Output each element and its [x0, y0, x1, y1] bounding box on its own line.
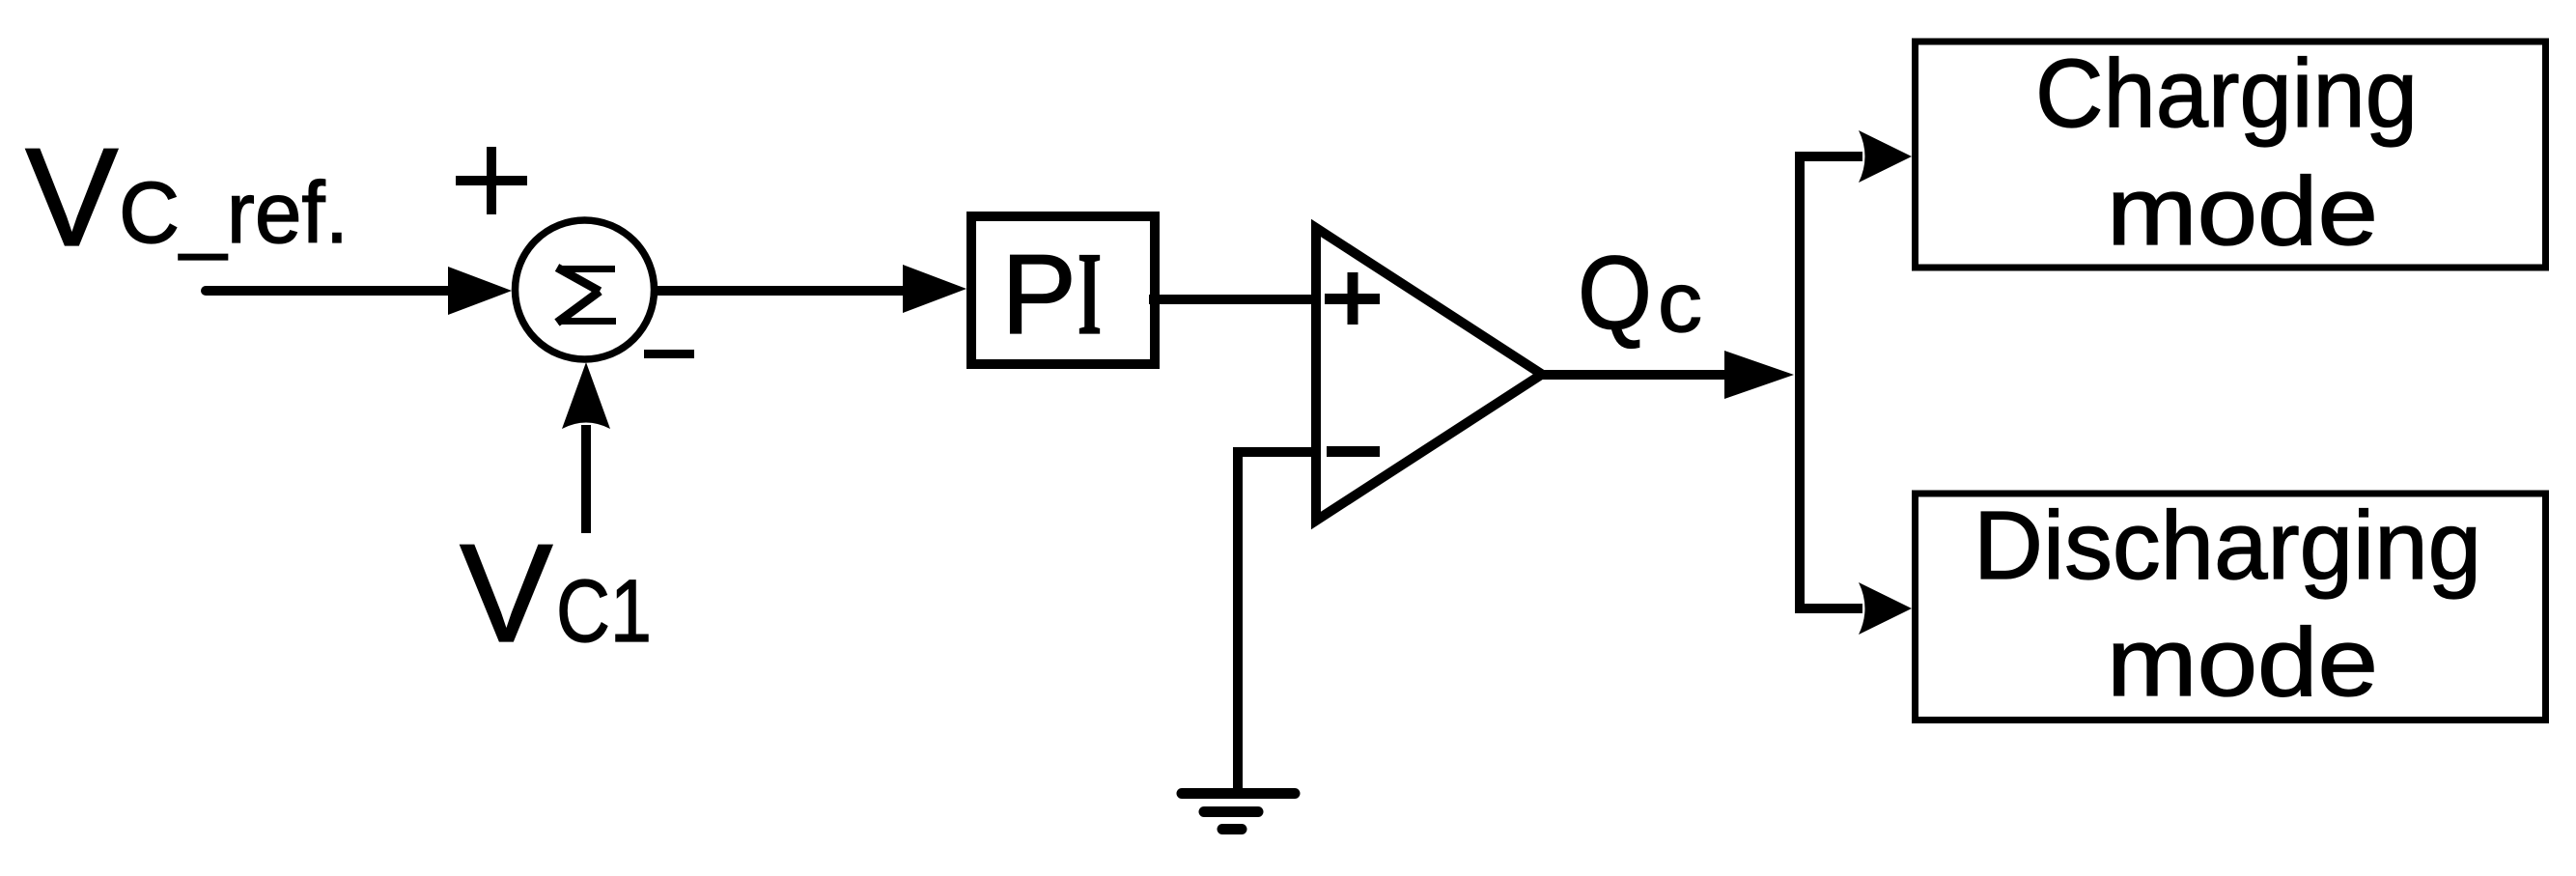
svg-text:C1: C1	[556, 562, 652, 661]
summing junction circle	[516, 220, 655, 359]
wire VC1 up into summer	[581, 425, 591, 533]
wire PI to comparator + input	[1149, 295, 1316, 304]
wire input VC_ref to summer	[206, 286, 454, 296]
node VC_ref label	[25, 119, 349, 275]
svg-text:c: c	[1658, 254, 1702, 350]
node VC1 label	[460, 515, 652, 671]
wire comparator - input to ground	[1238, 452, 1316, 790]
PI controller box	[971, 216, 1155, 364]
sigma symbol	[557, 268, 616, 323]
discharging mode box	[1916, 494, 2546, 721]
minus sign at summer lower input	[644, 350, 694, 358]
svg-text:V: V	[25, 119, 119, 275]
wire summer to PI	[658, 286, 908, 296]
arrowhead into summer	[448, 267, 512, 315]
minus sign inside comparator	[1327, 446, 1380, 457]
svg-text:Charging: Charging	[2035, 40, 2418, 148]
arrowhead up into summer	[562, 362, 610, 429]
svg-text:mode: mode	[2107, 608, 2378, 717]
wire comparator output Qc	[1541, 370, 1728, 380]
arrowhead at junction	[1724, 351, 1794, 399]
ground	[1182, 794, 1295, 830]
svg-text:Q: Q	[1578, 234, 1652, 351]
junction branch wire	[1800, 156, 1862, 608]
svg-text:Discharging: Discharging	[1974, 492, 2481, 600]
arrowhead into PI	[903, 265, 966, 313]
comparator U1	[1316, 228, 1542, 521]
arrowhead into discharging box	[1859, 582, 1912, 635]
svg-text:V: V	[460, 515, 553, 671]
svg-text:P: P	[1001, 231, 1077, 357]
svg-text:mode: mode	[2107, 157, 2378, 266]
charging mode text	[2035, 40, 2418, 266]
svg-text:C_ref.: C_ref.	[119, 165, 349, 262]
svg-text:I: I	[1078, 227, 1102, 359]
plus sign inside comparator	[1325, 272, 1380, 325]
plus sign at summer input	[456, 147, 527, 214]
discharging mode text	[1974, 492, 2481, 717]
arrowhead into charging box	[1859, 130, 1912, 183]
node Qc label	[1578, 234, 1702, 351]
charging mode box	[1916, 42, 2546, 268]
